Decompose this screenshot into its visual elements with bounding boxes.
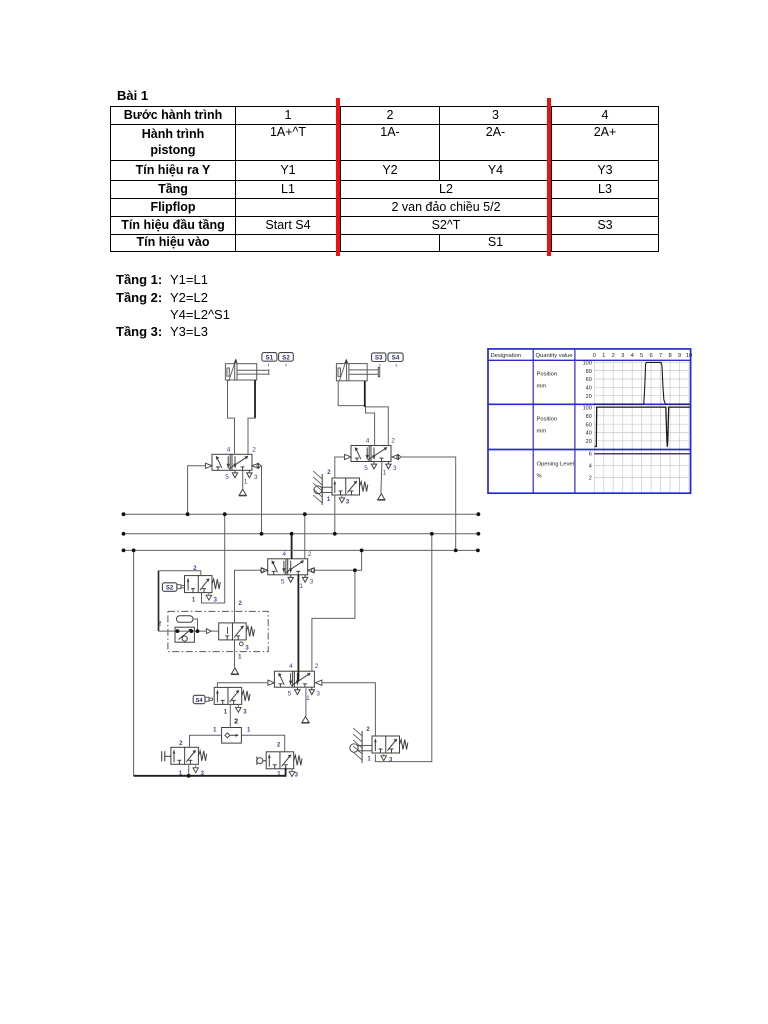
pushbutton valve (Start) bottom-left: [162, 741, 207, 777]
curve cylinder 2 position: [595, 407, 690, 447]
svg-text:1: 1: [247, 728, 251, 734]
svg-text:Quantity value: Quantity value: [536, 353, 573, 359]
svg-text:2: 2: [239, 601, 243, 607]
svg-text:4: 4: [631, 353, 635, 359]
wire V3 port2 to bus A: [304, 514, 306, 559]
svg-text:%: %: [537, 474, 542, 480]
svg-text:2: 2: [193, 566, 197, 572]
wire bus A to valve S2 port1: [202, 514, 225, 603]
wire shuttle output to S4-valve port1: [229, 705, 231, 728]
svg-text:2: 2: [612, 353, 615, 359]
supply V1 port1: [242, 470, 244, 489]
roller valve bottom-right (wall mounted): [350, 727, 408, 764]
junction dots timer and bottom: [196, 629, 200, 633]
svg-text:3: 3: [389, 758, 393, 764]
svg-text:3: 3: [295, 773, 299, 779]
junction dots bus C: [122, 549, 126, 553]
svg-text:0: 0: [593, 353, 596, 359]
svg-text:60: 60: [586, 377, 592, 383]
wire V3 port4 to bus B (pressurized): [291, 534, 293, 559]
svg-text:S1: S1: [266, 354, 274, 361]
svg-text:1: 1: [238, 655, 242, 661]
svg-text:2: 2: [327, 470, 331, 476]
timer unit box (delay valve): [158, 601, 268, 652]
svg-text:20: 20: [586, 394, 592, 400]
svg-text:S2: S2: [166, 586, 174, 592]
svg-text:10: 10: [686, 353, 692, 359]
equations: [116, 272, 162, 287]
roller valve top (wall mounted, S2 limit): [313, 470, 368, 506]
svg-text:mm: mm: [537, 429, 547, 435]
wire V1 right pilot to bus B: [260, 466, 261, 534]
svg-text:Designation: Designation: [491, 353, 522, 359]
supply V4 port1: [305, 688, 307, 716]
wire V3 right pilot to bus C: [315, 550, 362, 570]
left drop bus C to bottom bus: [133, 550, 135, 775]
title: [117, 88, 148, 103]
state diagram chart: [488, 349, 692, 493]
svg-text:3: 3: [621, 353, 624, 359]
distance rule S3 S4: [372, 353, 404, 367]
svg-text:1: 1: [367, 757, 371, 763]
flow control valve: [175, 627, 194, 642]
svg-text:1: 1: [602, 353, 605, 359]
svg-text:20: 20: [586, 439, 592, 445]
air reservoir: [177, 616, 194, 623]
svg-text:S3: S3: [375, 355, 383, 362]
wire V2 right pilot to bus C: [400, 457, 455, 550]
wire Start valve port1 to bottom bus: [188, 765, 190, 776]
svg-text:4: 4: [589, 464, 592, 470]
svg-text:Position: Position: [537, 417, 558, 423]
junction dots bus A: [122, 512, 126, 516]
wire cyl1 right port to V1 port2 (pressurized): [254, 380, 256, 418]
svg-text:9: 9: [678, 353, 681, 359]
svg-text:100: 100: [583, 361, 592, 367]
bottom bus (pressurized): [134, 768, 286, 776]
table: [110, 106, 659, 252]
svg-text:S2: S2: [282, 354, 290, 361]
svg-text:3: 3: [214, 597, 218, 603]
valve V3 5/2 (flip-flop upper): [261, 551, 315, 590]
wire branch to V4 port2: [312, 570, 355, 671]
bus line B: [124, 533, 479, 535]
supply V2 port1: [381, 462, 382, 493]
svg-text:3: 3: [245, 646, 249, 652]
svg-text:mm: mm: [537, 384, 547, 390]
shuttle valve (OR): [222, 728, 242, 744]
wire cyl2 right port to V2 port2 (pressurized): [364, 381, 366, 407]
svg-text:2: 2: [277, 743, 281, 749]
valve S4 3/2 with label box: [193, 687, 250, 715]
wire valve S2 output to timer input: [159, 571, 201, 576]
pushbutton valve bottom-middle: [257, 743, 302, 779]
wire shuttle left to pushbutton Start port2: [190, 735, 222, 747]
svg-text:2: 2: [589, 476, 592, 482]
svg-text:S4: S4: [196, 698, 204, 704]
wire bus B to roller-bottom port1: [375, 534, 431, 762]
bus line A: [124, 513, 479, 515]
valve S2 3/2 with label box (timer chain input): [162, 566, 220, 603]
svg-text:6: 6: [650, 353, 653, 359]
svg-text:2: 2: [179, 741, 183, 747]
junction dots bus B: [122, 532, 126, 536]
svg-text:80: 80: [586, 369, 592, 375]
svg-text:2: 2: [234, 719, 238, 726]
cylinder 1A: [225, 358, 268, 381]
svg-text:2: 2: [366, 727, 370, 733]
valve V1 5/2 (cyl 1A): [206, 446, 261, 485]
bus line C: [124, 549, 478, 551]
wire V3 port1 to V4 (pressurized): [297, 575, 299, 681]
svg-text:8: 8: [668, 353, 671, 359]
svg-text:40: 40: [586, 386, 592, 392]
svg-text:1: 1: [213, 728, 217, 734]
red marker line 1: [336, 98, 340, 256]
svg-text:1: 1: [327, 497, 331, 503]
svg-text:5: 5: [640, 353, 643, 359]
curve cylinder 1 position: [594, 362, 690, 404]
pilot connector: [206, 629, 211, 634]
wire S4-valve port2 to V4 left pilot: [217, 683, 268, 688]
svg-text:1: 1: [192, 597, 196, 603]
svg-text:3: 3: [243, 710, 247, 716]
svg-text:100: 100: [583, 406, 592, 412]
wire cyl1 left port to V1 port4: [228, 380, 235, 454]
cylinder 2A: [336, 359, 379, 382]
valve V4 5/2 (flip-flop lower): [268, 663, 322, 702]
svg-text:80: 80: [586, 414, 592, 420]
svg-text:3: 3: [346, 500, 350, 506]
svg-text:Opening Level: Opening Level: [537, 462, 574, 468]
wire V1 left pilot to bus A: [188, 466, 206, 514]
wire shuttle right to mid pushbutton port2: [241, 735, 284, 752]
timer supply: [234, 640, 236, 668]
valve V2 5/2 (cyl 2A): [345, 438, 401, 477]
svg-text:1: 1: [224, 710, 228, 716]
svg-text:6: 6: [589, 451, 592, 457]
svg-text:S4: S4: [392, 355, 400, 362]
wire timer output to V3 left pilot: [235, 570, 261, 623]
wire V4 right pilot to roller-bottom port2: [322, 683, 376, 736]
timer 3/2 valve: [219, 623, 255, 661]
wire cyl2 left port to V2 port4: [338, 381, 374, 446]
distance rule S1 S2: [262, 353, 293, 367]
wire roller-top port2 to V2 left pilot: [335, 457, 345, 478]
svg-text:60: 60: [586, 422, 592, 428]
svg-text:40: 40: [586, 431, 592, 437]
svg-text:Position: Position: [537, 372, 558, 378]
red marker line 2: [547, 98, 551, 256]
curve opening level: [594, 453, 690, 455]
svg-text:7: 7: [659, 353, 662, 359]
wire roller-top port1 to bus B: [334, 495, 336, 534]
